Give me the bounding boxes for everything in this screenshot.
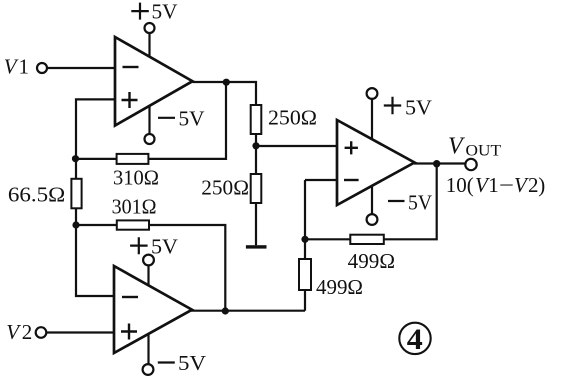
svg-text:V: V <box>6 320 21 344</box>
svg-text:250Ω: 250Ω <box>201 175 249 199</box>
svg-text:V: V <box>4 55 19 79</box>
svg-text:−: − <box>499 173 514 197</box>
svg-text:1: 1 <box>488 173 499 197</box>
svg-text:2: 2 <box>22 320 33 344</box>
svg-text:250Ω: 250Ω <box>268 106 317 130</box>
svg-text:5V: 5V <box>179 107 205 131</box>
svg-text:V: V <box>448 134 465 160</box>
svg-text:5V: 5V <box>151 235 178 259</box>
svg-text:499Ω: 499Ω <box>316 275 363 299</box>
svg-text:310Ω: 310Ω <box>113 166 159 190</box>
svg-text:): ) <box>538 173 545 197</box>
svg-text:4: 4 <box>407 323 423 356</box>
svg-text:5V: 5V <box>405 96 432 120</box>
svg-text:2: 2 <box>528 173 539 197</box>
svg-text:1: 1 <box>19 55 30 79</box>
svg-text:499Ω: 499Ω <box>348 249 395 273</box>
svg-text:301Ω: 301Ω <box>112 195 157 219</box>
svg-text:V: V <box>514 173 529 197</box>
svg-text:5V: 5V <box>408 191 432 215</box>
svg-text:5V: 5V <box>152 0 178 24</box>
svg-text:10(: 10( <box>446 173 474 197</box>
svg-text:5V: 5V <box>178 351 206 375</box>
svg-text:66.5Ω: 66.5Ω <box>8 183 65 207</box>
svg-text:OUT: OUT <box>466 143 502 160</box>
